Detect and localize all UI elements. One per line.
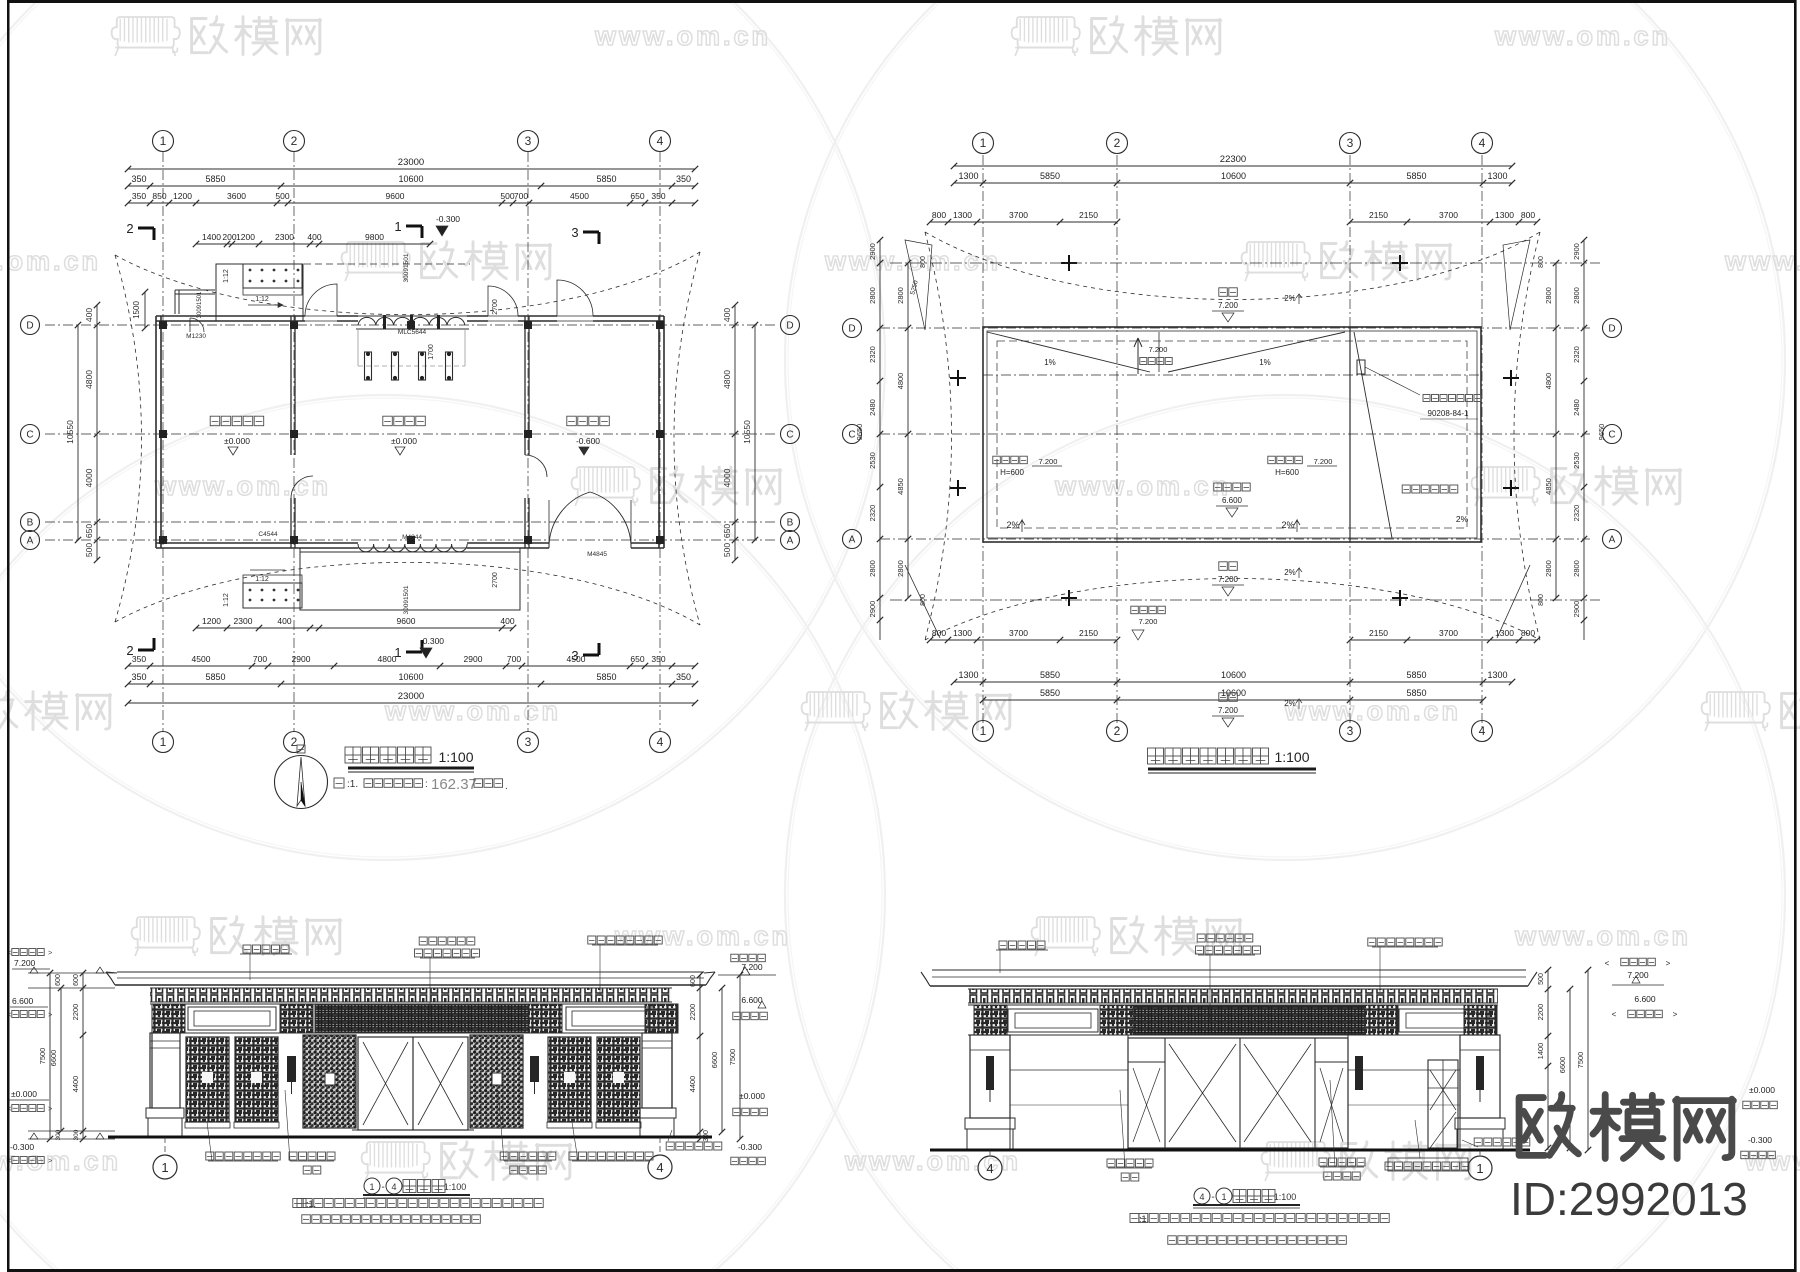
- svg-text:6.600: 6.600: [1222, 496, 1243, 505]
- svg-text:90208-84-1: 90208-84-1: [1428, 409, 1469, 418]
- svg-text:6.600: 6.600: [741, 995, 763, 1005]
- svg-text:500: 500: [275, 191, 289, 201]
- svg-text:5850: 5850: [1040, 688, 1060, 698]
- svg-text:<: <: [1612, 1010, 1617, 1019]
- svg-text:200: 200: [222, 232, 236, 242]
- svg-text:5850: 5850: [1406, 670, 1426, 680]
- svg-text:.: .: [505, 781, 508, 792]
- svg-text:400: 400: [277, 616, 291, 626]
- svg-text:4800: 4800: [722, 370, 732, 389]
- svg-text:650: 650: [84, 524, 94, 538]
- svg-text:2800: 2800: [1572, 560, 1581, 577]
- svg-text:A: A: [849, 535, 856, 546]
- svg-text:1: 1: [394, 219, 401, 234]
- svg-text:2900: 2900: [1572, 243, 1581, 260]
- svg-text:500: 500: [722, 543, 732, 557]
- svg-text:www.om.cn: www.om.cn: [1054, 471, 1231, 501]
- svg-text:1300: 1300: [958, 171, 978, 181]
- svg-text:1: 1: [161, 1160, 168, 1175]
- svg-text:650: 650: [630, 654, 644, 664]
- svg-text:1500: 1500: [132, 301, 141, 319]
- svg-text:2900: 2900: [868, 243, 877, 260]
- svg-text:9600: 9600: [397, 616, 416, 626]
- svg-text:1700: 1700: [428, 344, 435, 360]
- svg-text:300: 300: [703, 1130, 710, 1142]
- svg-text:3: 3: [525, 134, 532, 148]
- svg-text:4: 4: [657, 735, 664, 749]
- svg-text:650: 650: [630, 191, 644, 201]
- svg-text:7.200: 7.200: [1218, 706, 1239, 715]
- svg-text:7.200: 7.200: [741, 962, 763, 972]
- svg-text:M4845: M4845: [587, 551, 607, 558]
- svg-text:4500: 4500: [192, 654, 211, 664]
- svg-text:2200: 2200: [71, 1004, 80, 1021]
- svg-text:400: 400: [722, 308, 732, 322]
- svg-text:2800: 2800: [1544, 287, 1553, 304]
- svg-text:650: 650: [722, 524, 732, 538]
- svg-text:4800: 4800: [84, 370, 94, 389]
- svg-text:500: 500: [500, 191, 514, 201]
- svg-text:7500: 7500: [1576, 1052, 1585, 1069]
- svg-text:7.200: 7.200: [1627, 970, 1649, 980]
- svg-text:2%: 2%: [1281, 520, 1294, 530]
- svg-text:2530: 2530: [868, 452, 877, 469]
- svg-text:2480: 2480: [868, 399, 877, 416]
- svg-text:5850: 5850: [1406, 171, 1426, 181]
- svg-text:2: 2: [291, 134, 298, 148]
- svg-text:2320: 2320: [1572, 505, 1581, 522]
- svg-text:2%: 2%: [1456, 514, 1469, 524]
- svg-text:2320: 2320: [1572, 346, 1581, 363]
- svg-text:1: 1: [1476, 1161, 1483, 1176]
- svg-text:4000: 4000: [84, 468, 94, 487]
- svg-text:1400: 1400: [1536, 1043, 1545, 1060]
- svg-text:www.om.cn: www.om.cn: [1494, 21, 1671, 51]
- svg-text:1400: 1400: [202, 232, 221, 242]
- svg-text:1300: 1300: [1495, 210, 1514, 220]
- svg-text:2800: 2800: [896, 560, 905, 577]
- svg-text:4500: 4500: [570, 191, 589, 201]
- svg-text:4: 4: [986, 1161, 993, 1176]
- svg-text::: :: [425, 779, 428, 790]
- svg-text:7.200: 7.200: [1149, 345, 1168, 354]
- svg-text:2%: 2%: [1284, 699, 1296, 708]
- svg-text:1: 1: [160, 134, 167, 148]
- svg-text:850: 850: [152, 191, 166, 201]
- svg-text:2%: 2%: [1284, 568, 1296, 577]
- svg-text:3700: 3700: [1009, 210, 1028, 220]
- svg-text:2300: 2300: [275, 232, 294, 242]
- svg-text:2200: 2200: [1536, 1004, 1545, 1021]
- svg-text:1300: 1300: [1487, 670, 1507, 680]
- svg-text:6.600: 6.600: [1634, 994, 1656, 1004]
- svg-text:-0.300: -0.300: [10, 1142, 34, 1152]
- svg-text:1:12: 1:12: [255, 296, 269, 303]
- svg-text:700: 700: [514, 191, 528, 201]
- svg-text:7.200: 7.200: [14, 958, 36, 968]
- svg-text:2800: 2800: [1544, 560, 1553, 577]
- svg-text:4: 4: [391, 1182, 396, 1192]
- svg-text:5850: 5850: [205, 174, 225, 184]
- svg-text:2800: 2800: [896, 287, 905, 304]
- svg-text:2530: 2530: [1572, 452, 1581, 469]
- svg-text:9650: 9650: [855, 424, 864, 441]
- svg-text:22300: 22300: [1220, 154, 1246, 165]
- svg-text:C4544: C4544: [258, 531, 278, 538]
- svg-text:±0.000: ±0.000: [11, 1089, 37, 1099]
- svg-text:7.200: 7.200: [1039, 457, 1058, 466]
- svg-text:1: 1: [160, 735, 167, 749]
- svg-text:3600: 3600: [227, 191, 246, 201]
- svg-text:10600: 10600: [1221, 670, 1246, 680]
- svg-text:www.om.cn: www.om.cn: [0, 246, 101, 276]
- svg-text:700: 700: [507, 654, 521, 664]
- svg-text:A: A: [27, 536, 34, 547]
- svg-text:3700: 3700: [1439, 628, 1458, 638]
- svg-text:2%: 2%: [1284, 294, 1296, 303]
- svg-text:4800: 4800: [1544, 373, 1553, 390]
- svg-text:1300: 1300: [1487, 171, 1507, 181]
- svg-text:23000: 23000: [398, 157, 424, 168]
- svg-text:>: >: [48, 1010, 53, 1019]
- svg-text:H=600: H=600: [1275, 468, 1299, 477]
- svg-text:7500: 7500: [728, 1049, 737, 1066]
- svg-text:3700: 3700: [1439, 210, 1458, 220]
- svg-text:3: 3: [1347, 724, 1354, 738]
- svg-text:<: <: [1605, 959, 1610, 968]
- svg-text:162.37: 162.37: [431, 776, 477, 793]
- svg-text:3: 3: [1347, 136, 1354, 150]
- svg-text:5850: 5850: [596, 174, 616, 184]
- svg-text:-0.300: -0.300: [738, 1142, 762, 1152]
- svg-text:350: 350: [651, 191, 665, 201]
- svg-text:7500: 7500: [38, 1048, 47, 1065]
- svg-text:2150: 2150: [1079, 210, 1098, 220]
- svg-text:5850: 5850: [205, 672, 225, 682]
- svg-text:23000: 23000: [398, 691, 424, 702]
- svg-text:-: -: [381, 1182, 384, 1193]
- svg-text:300: 300: [55, 1129, 62, 1140]
- svg-text:C: C: [786, 430, 793, 441]
- svg-text:3: 3: [571, 648, 578, 663]
- svg-text:1200: 1200: [202, 616, 221, 626]
- svg-text:2800: 2800: [1572, 287, 1581, 304]
- svg-text:7.200: 7.200: [1314, 457, 1333, 466]
- svg-text:1:100: 1:100: [1274, 1192, 1297, 1202]
- svg-text:10600: 10600: [398, 672, 423, 682]
- svg-text:A: A: [787, 536, 794, 547]
- svg-text:M4844: M4844: [402, 534, 422, 541]
- svg-text:500: 500: [1538, 973, 1545, 985]
- svg-text:D: D: [848, 324, 855, 335]
- svg-text:5850: 5850: [1040, 171, 1060, 181]
- svg-text:2150: 2150: [1369, 628, 1388, 638]
- svg-text:350: 350: [676, 672, 691, 682]
- svg-text:www.om.cn: www.om.cn: [154, 471, 331, 501]
- svg-text:>: >: [1673, 1010, 1678, 1019]
- svg-text:5850: 5850: [596, 672, 616, 682]
- svg-text:-0.300: -0.300: [420, 636, 444, 646]
- svg-text:10600: 10600: [1221, 171, 1246, 181]
- svg-text:9800: 9800: [365, 232, 384, 242]
- svg-text:30091501: 30091501: [197, 291, 203, 318]
- svg-text:>: >: [48, 1104, 53, 1113]
- svg-text:30091501: 30091501: [403, 253, 410, 282]
- svg-text:www.om.cn: www.om.cn: [1514, 921, 1691, 951]
- svg-text:2%: 2%: [1006, 520, 1019, 530]
- svg-text:800: 800: [932, 210, 946, 220]
- svg-text:-0.600: -0.600: [576, 436, 600, 446]
- svg-text:1%: 1%: [1044, 358, 1056, 367]
- svg-text:7.200: 7.200: [1139, 617, 1158, 626]
- svg-text:2700: 2700: [492, 299, 499, 315]
- svg-text:6600: 6600: [710, 1052, 719, 1069]
- svg-text:D: D: [786, 321, 793, 332]
- svg-text:4850: 4850: [1544, 478, 1553, 495]
- svg-text:9600: 9600: [386, 191, 405, 201]
- svg-text:3: 3: [525, 735, 532, 749]
- svg-text:5850: 5850: [1406, 688, 1426, 698]
- svg-text:2900: 2900: [292, 654, 311, 664]
- svg-text:1300: 1300: [953, 210, 972, 220]
- svg-text:2320: 2320: [868, 346, 877, 363]
- svg-text:4: 4: [657, 134, 664, 148]
- svg-text:www.om.cn: www.om.cn: [1284, 696, 1461, 726]
- svg-text:1:12: 1:12: [223, 593, 230, 607]
- svg-text:600: 600: [55, 974, 62, 986]
- svg-text:30091501: 30091501: [403, 585, 410, 614]
- svg-text:2: 2: [126, 221, 133, 236]
- svg-text:±0.000: ±0.000: [391, 436, 417, 446]
- svg-text:>: >: [1666, 959, 1671, 968]
- svg-text:1: 1: [1221, 1192, 1226, 1202]
- svg-text:700: 700: [253, 654, 267, 664]
- svg-text:2900: 2900: [464, 654, 483, 664]
- svg-text:350: 350: [676, 174, 691, 184]
- svg-text:1: 1: [980, 136, 987, 150]
- svg-text:>: >: [48, 1156, 53, 1165]
- svg-text:2900: 2900: [868, 601, 877, 618]
- svg-text:1300: 1300: [953, 628, 972, 638]
- svg-text:2800: 2800: [868, 287, 877, 304]
- svg-text:2150: 2150: [1369, 210, 1388, 220]
- svg-text:4800: 4800: [896, 373, 905, 390]
- svg-text:4400: 4400: [71, 1076, 80, 1093]
- svg-text:6600: 6600: [1558, 1057, 1567, 1074]
- svg-text:500: 500: [84, 543, 94, 557]
- svg-text:2: 2: [1114, 136, 1121, 150]
- svg-text:7.200: 7.200: [1218, 301, 1239, 310]
- svg-text:7.200: 7.200: [1218, 575, 1239, 584]
- svg-text:4000: 4000: [722, 468, 732, 487]
- svg-text:350: 350: [132, 191, 146, 201]
- svg-text:2480: 2480: [1572, 399, 1581, 416]
- svg-text:10600: 10600: [398, 174, 423, 184]
- svg-text:1:12: 1:12: [255, 576, 269, 583]
- svg-text:±0.000: ±0.000: [224, 436, 250, 446]
- svg-text:1:100: 1:100: [1274, 749, 1309, 765]
- svg-text:5850: 5850: [1040, 670, 1060, 680]
- svg-text:1200: 1200: [173, 191, 192, 201]
- svg-text:4: 4: [1479, 724, 1486, 738]
- svg-text:1: 1: [980, 724, 987, 738]
- svg-text:300: 300: [73, 1129, 80, 1140]
- svg-text:2: 2: [1114, 724, 1121, 738]
- svg-text:1:100: 1:100: [438, 749, 473, 765]
- svg-text:350: 350: [132, 654, 146, 664]
- svg-text:H=600: H=600: [1000, 468, 1024, 477]
- svg-text:±0.000: ±0.000: [1749, 1085, 1775, 1095]
- svg-text:4: 4: [1199, 1192, 1204, 1202]
- svg-text:C: C: [1608, 430, 1615, 441]
- svg-text:2320: 2320: [868, 505, 877, 522]
- svg-text:2300: 2300: [234, 616, 253, 626]
- svg-text:6.600: 6.600: [12, 996, 34, 1006]
- svg-text:M1230: M1230: [186, 333, 206, 340]
- svg-text:2700: 2700: [492, 572, 499, 588]
- svg-text:4: 4: [656, 1160, 663, 1175]
- svg-text:-0.300: -0.300: [1748, 1135, 1772, 1145]
- svg-text:4: 4: [1479, 136, 1486, 150]
- svg-text:2150: 2150: [1079, 628, 1098, 638]
- svg-text:600: 600: [73, 974, 80, 986]
- svg-text:350: 350: [131, 672, 146, 682]
- svg-text:D: D: [1608, 324, 1615, 335]
- svg-text:400: 400: [307, 232, 321, 242]
- svg-text:www.om.cn: www.om.cn: [824, 246, 1001, 276]
- svg-text:3: 3: [571, 225, 578, 240]
- svg-text:600: 600: [690, 975, 697, 987]
- svg-text:400: 400: [500, 616, 514, 626]
- svg-text:1200: 1200: [236, 232, 255, 242]
- svg-text:1:100: 1:100: [444, 1182, 467, 1192]
- svg-text:www.om.cn: www.om.cn: [594, 21, 771, 51]
- svg-text:350: 350: [651, 654, 665, 664]
- svg-text:9650: 9650: [1597, 424, 1606, 441]
- svg-text:www.om.cn: www.om.cn: [1724, 246, 1800, 276]
- svg-text:A: A: [1609, 535, 1616, 546]
- svg-text:D: D: [26, 321, 33, 332]
- svg-text:1%: 1%: [1259, 358, 1271, 367]
- svg-text:1: 1: [369, 1182, 374, 1192]
- svg-text:B: B: [27, 518, 34, 529]
- svg-text:4400: 4400: [688, 1076, 697, 1093]
- svg-text:-0.300: -0.300: [436, 214, 460, 224]
- svg-text:2200: 2200: [688, 1004, 697, 1021]
- svg-text:2: 2: [126, 643, 133, 658]
- svg-text:2800: 2800: [868, 560, 877, 577]
- svg-text:400: 400: [84, 308, 94, 322]
- svg-text:4850: 4850: [896, 478, 905, 495]
- svg-text:>: >: [48, 948, 53, 957]
- svg-text:B: B: [787, 518, 794, 529]
- svg-text:3700: 3700: [1009, 628, 1028, 638]
- svg-text:1:12: 1:12: [223, 269, 230, 283]
- svg-text:2900: 2900: [1572, 601, 1581, 618]
- svg-text:ID:2992013: ID:2992013: [1510, 1173, 1748, 1225]
- svg-text:C: C: [26, 430, 33, 441]
- svg-text:-: -: [1211, 1192, 1214, 1203]
- svg-text:MLC5644: MLC5644: [398, 329, 427, 336]
- svg-text:350: 350: [131, 174, 146, 184]
- svg-text:800: 800: [920, 256, 927, 268]
- svg-text:www.om.cn: www.om.cn: [1744, 1146, 1800, 1176]
- svg-text:1: 1: [394, 645, 401, 660]
- svg-text:1300: 1300: [958, 670, 978, 680]
- svg-text:10550: 10550: [742, 420, 752, 444]
- svg-text::1.: :1.: [347, 779, 358, 790]
- svg-text:800: 800: [1538, 256, 1545, 268]
- svg-text:800: 800: [1521, 210, 1535, 220]
- svg-text:±0.000: ±0.000: [739, 1091, 765, 1101]
- svg-text:10550: 10550: [65, 420, 75, 444]
